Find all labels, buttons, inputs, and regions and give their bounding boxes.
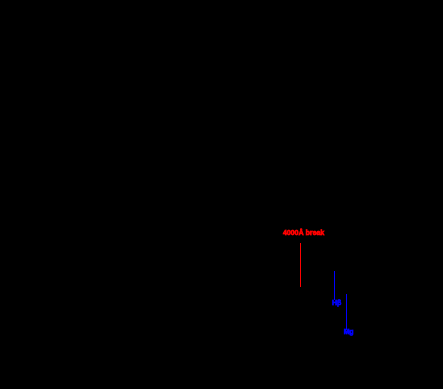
label: H-beta (blue) <box>332 300 341 307</box>
label: 4000A break (red) <box>283 230 324 237</box>
marker line: 4000A break (red) <box>300 243 301 287</box>
label: Mg (blue) <box>344 329 353 336</box>
marker line: Mg (blue) <box>346 294 347 331</box>
marker line: H-beta (blue) <box>334 271 335 300</box>
